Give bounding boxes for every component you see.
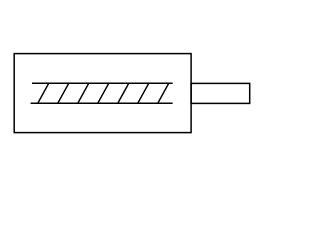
actuator body rectangle xyxy=(14,54,191,133)
hatch stroke 6 xyxy=(138,83,149,103)
hatch stroke 4 xyxy=(98,83,109,103)
hatch stroke 5 xyxy=(118,83,129,103)
hatch stroke 3 xyxy=(78,83,89,103)
hatch stroke 7 xyxy=(158,83,169,103)
hatch stroke 1 xyxy=(38,83,49,103)
hatch stroke 2 xyxy=(58,83,69,103)
hatched rod top line xyxy=(32,82,173,84)
hatched rod bottom line xyxy=(31,102,173,104)
shaft (output rod) rectangle xyxy=(191,83,250,103)
